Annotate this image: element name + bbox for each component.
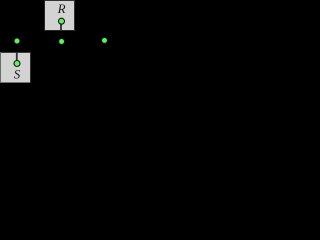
node A (left middle vertex): [14, 38, 20, 44]
node C (right middle vertex): [102, 37, 108, 43]
wire stem from box edge down to node S: [16, 52, 18, 64]
svg-text:S: S: [14, 66, 21, 81]
node B (center middle vertex): [59, 39, 65, 45]
wire stem from node R down to box edge: [60, 21, 62, 31]
node R (green vertex): [59, 18, 65, 24]
state box S: [0, 52, 31, 83]
background canvas: [0, 0, 108, 83]
node S (green vertex): [14, 61, 20, 67]
state box R: [44, 0, 75, 31]
svg-text:R: R: [57, 1, 66, 16]
